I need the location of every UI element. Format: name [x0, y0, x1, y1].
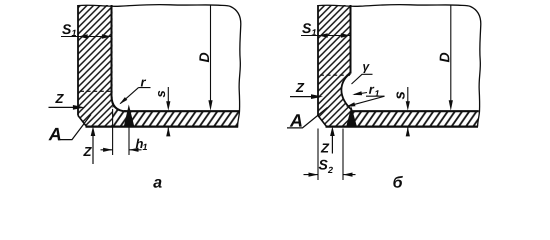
shell wall section with J-groove (hatched, part 1) [318, 5, 352, 127]
corner chamfer A [78, 116, 87, 127]
gap Z (horizontal) [290, 83, 323, 99]
gap Z (horizontal) [49, 94, 85, 110]
h1 right extension [128, 127, 130, 156]
break line right (wavy) [238, 24, 241, 127]
bottom sheet section (hatched, part 2) [113, 96, 240, 127]
break line top (wavy) [318, 5, 481, 24]
radius label r with leader [119, 80, 150, 105]
caption б [393, 176, 403, 188]
corner chamfer A [318, 116, 327, 127]
dimension D (diameter) [199, 6, 212, 111]
dimension S1 [61, 24, 111, 39]
shell right edge with fillet r [112, 5, 127, 111]
dimension h1 [101, 139, 148, 152]
radius label r1 with leaders [346, 87, 385, 107]
joint line / h1 left extension [112, 109, 114, 155]
bottom sheet section (hatched, part 2) [352, 111, 480, 126]
gap Z (vertical) [83, 126, 95, 164]
dimension S2 [304, 160, 356, 177]
sheet top surface [352, 110, 479, 112]
S2 left extension [317, 129, 319, 181]
sheet top surface [124, 110, 239, 112]
caption а [153, 179, 161, 188]
corner label A with leader [48, 115, 91, 141]
groove angle γ with leader [352, 64, 373, 84]
dimension D (diameter) [440, 6, 453, 111]
hidden line (dashed) original edge [320, 74, 350, 76]
J-groove curve r1 [341, 74, 351, 110]
shell right edge [350, 5, 352, 74]
shell left edge [317, 5, 319, 116]
break line right (wavy) [478, 24, 481, 127]
bottom surface line [86, 125, 239, 127]
bottom surface line [326, 125, 479, 127]
dimension s (sheet thickness) [158, 87, 170, 136]
weld bead (filled triangle) [346, 107, 357, 127]
corner label A with leader [287, 108, 328, 128]
dimension s (sheet thickness) [396, 87, 409, 136]
gap Z (vertical) [321, 126, 335, 153]
hidden line (dashed) of knuckle limit [80, 90, 112, 92]
shell wall section (hatched, part 1) [78, 5, 113, 127]
break line top (wavy) [78, 5, 241, 24]
weld bead (filled triangle) [124, 105, 135, 127]
shell left edge [77, 5, 79, 116]
dimension S1 [301, 23, 350, 38]
S2 right extension [342, 129, 344, 181]
